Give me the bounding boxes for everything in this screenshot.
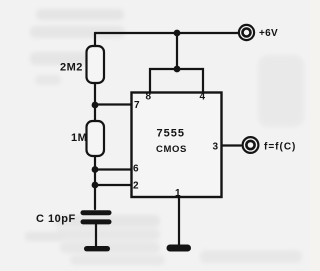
svg-text:f=f(C): f=f(C) — [264, 142, 296, 153]
wire pin 6 — [95, 168, 131, 170]
svg-text:7555: 7555 — [157, 128, 185, 140]
node junction pin7 — [92, 102, 99, 109]
wire top rail to R1 — [94, 33, 96, 46]
resistor R2 body — [87, 121, 105, 156]
ground (pin 1) — [167, 245, 192, 252]
wire R1 to R2 — [94, 83, 96, 121]
node junction pin2 — [92, 182, 99, 189]
wire capacitor to ground — [95, 224, 97, 246]
svg-text:2M2: 2M2 — [60, 62, 83, 74]
svg-text:C 10pF: C 10pF — [36, 213, 76, 225]
svg-text:+6V: +6V — [259, 28, 278, 39]
wire pin 3 — [222, 144, 241, 146]
svg-text:7: 7 — [134, 100, 140, 111]
svg-text:1: 1 — [175, 188, 181, 199]
op-amp U1 7555 IC body — [132, 93, 222, 198]
terminal output outer ring — [243, 137, 259, 153]
wire pin 2 — [95, 184, 131, 186]
ground (capacitor) — [84, 246, 110, 251]
svg-text:2: 2 — [133, 181, 139, 192]
wire R2 to capacitor — [94, 156, 96, 209]
svg-text:8: 8 — [146, 92, 152, 103]
svg-text:6: 6 — [133, 164, 139, 175]
capacitor C1 bottom plate — [81, 219, 112, 224]
wire pin 7 — [95, 103, 131, 105]
svg-text:4: 4 — [200, 92, 206, 103]
wire pin8/pin4 bus — [150, 69, 203, 92]
node junction bus — [174, 66, 181, 73]
svg-text:CMOS: CMOS — [156, 144, 187, 155]
svg-text:1M: 1M — [71, 132, 87, 144]
wire V+ drop — [176, 33, 178, 69]
wire pin 1 to ground — [178, 197, 180, 245]
node junction top rail — [174, 30, 181, 37]
node junction pin6 — [92, 166, 99, 173]
terminal +6V inner ring — [243, 29, 251, 37]
capacitor C1 top plate — [81, 210, 112, 215]
terminal output inner ring — [246, 141, 254, 149]
svg-text:3: 3 — [213, 142, 219, 153]
resistor R1 body — [87, 46, 105, 83]
terminal +6V outer ring — [239, 25, 254, 40]
wire top rail — [95, 32, 238, 34]
